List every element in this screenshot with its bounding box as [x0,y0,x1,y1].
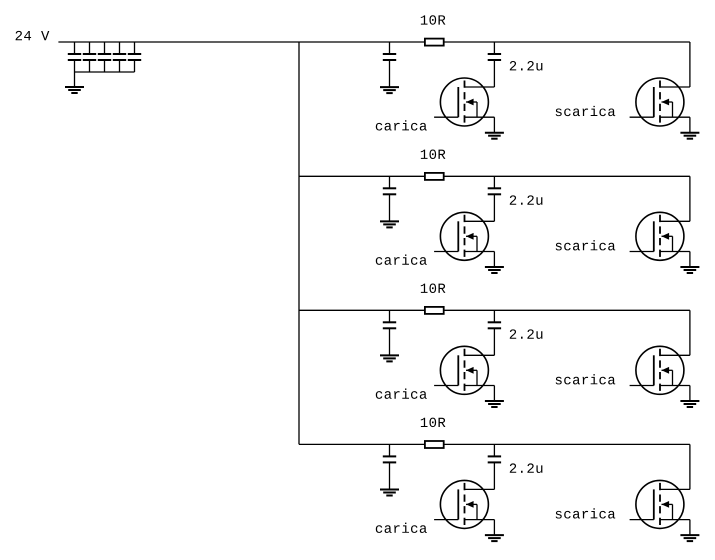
wire: drop to scarica drain (stage 1) [689,42,691,87]
label 2.2u (C2 value) [510,195,543,205]
capacitor (bulk bank #5) [128,42,141,72]
wire: stage 2 branch from bus [299,175,690,177]
resistor R1 10R [425,39,444,46]
capacitor (bulk bank #1) [68,42,81,72]
capacitor C1 2.2u [488,42,501,87]
transistor Q3 carica (stage 2) [434,212,494,266]
ground (Q6 scarica (stage 3) source) [680,401,699,407]
capacitor (bulk bank #2) [83,42,96,72]
ground (capacitor bank) [65,87,84,93]
wire: vertical supply bus [298,42,300,444]
label 10R (R4 value) [421,418,446,428]
node +24V label [16,31,50,40]
ground (bypass cap, stage 4) [380,490,399,496]
capacitor (bulk bank #3) [98,42,111,72]
label scarica (stage 4) [556,508,616,518]
ground (bypass cap, stage 2) [380,221,399,227]
label scarica (stage 2) [556,240,616,250]
capacitor C3 2.2u [488,310,501,355]
label carica (stage 2) [376,255,427,265]
ground (Q3 carica (stage 2) source) [485,267,504,273]
resistor R3 10R [425,307,444,314]
ground (Q2 scarica (stage 1) source) [680,133,699,139]
transistor Q7 carica (stage 4) [434,480,494,534]
capacitor (bulk bank #4) [113,42,126,72]
ground (bypass cap, stage 1) [380,87,399,93]
label 10R (R1 value) [421,15,446,25]
label carica (stage 3) [376,389,427,399]
label 2.2u (C1 value) [510,61,543,71]
label 2.2u (C3 value) [510,329,543,339]
resistor R2 10R [425,173,444,180]
capacitor C2 2.2u [488,176,501,221]
transistor Q4 scarica (stage 2) [630,212,690,266]
resistor R4 10R [425,441,444,448]
transistor Q6 scarica (stage 3) [630,346,690,400]
ground (Q5 carica (stage 3) source) [485,401,504,407]
wire: capacitor bank bottom bus [75,71,135,73]
label scarica (stage 1) [556,106,616,116]
wire: drop to scarica drain (stage 3) [689,310,691,355]
label scarica (stage 3) [556,374,616,384]
label 2.2u (C4 value) [510,463,543,473]
label 10R (R3 value) [421,284,446,294]
transistor Q8 scarica (stage 4) [630,480,690,534]
wire: bank ground stem [74,72,76,87]
capacitor (bypass, stage 3) [383,310,396,355]
ground (bypass cap, stage 3) [380,355,399,361]
transistor Q1 carica (stage 1) [434,78,494,132]
transistor Q5 carica (stage 3) [434,346,494,400]
wire: stage 4 branch from bus [299,443,690,445]
ground (Q8 scarica (stage 4) source) [680,535,699,541]
wire: drop to scarica drain (stage 4) [689,444,691,489]
capacitor C4 2.2u [488,444,501,489]
ground (Q1 carica (stage 1) source) [485,133,504,139]
ground (Q4 scarica (stage 2) source) [680,267,699,273]
wire: stage 3 branch from bus [299,309,690,311]
wire: drop to scarica drain (stage 2) [689,176,691,221]
capacitor (bypass, stage 4) [383,444,396,489]
label carica (stage 4) [376,523,427,533]
capacitor (bypass, stage 1) [383,42,396,87]
wire: +24V rail (stage 1) [58,41,690,43]
capacitor (bypass, stage 2) [383,176,396,221]
label carica (stage 1) [376,120,427,130]
ground (Q7 carica (stage 4) source) [485,535,504,541]
label 10R (R2 value) [421,150,446,160]
transistor Q2 scarica (stage 1) [630,78,690,132]
